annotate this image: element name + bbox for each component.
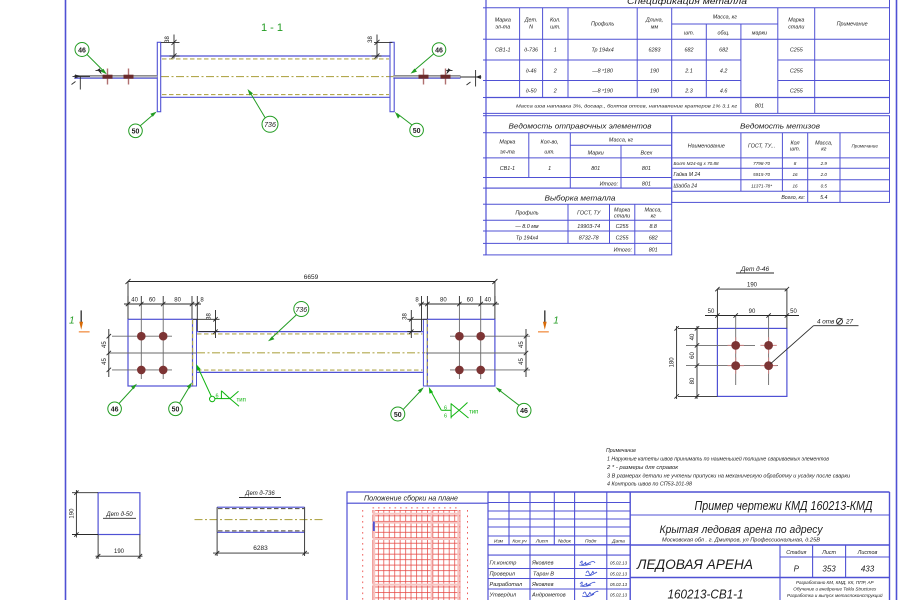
svg-text:2.9: 2.9 xyxy=(820,161,828,166)
left frame line xyxy=(65,0,67,600)
svg-text:801: 801 xyxy=(591,166,600,172)
svg-text:Пример чертежи КМД 160213-КМД: Пример чертежи КМД 160213-КМД xyxy=(695,499,873,513)
NOTES xyxy=(606,448,850,488)
svg-text:90: 90 xyxy=(749,309,756,315)
revision header texts xyxy=(494,539,625,545)
svg-text:Примечание: Примечание xyxy=(837,22,868,28)
dim row left 40 60 80 8 xyxy=(124,296,201,331)
left arm tiny dim xyxy=(72,74,91,89)
balloon 736 xyxy=(248,89,279,132)
svg-text:Выборка металла: Выборка металла xyxy=(545,194,616,203)
right zone lines xyxy=(630,514,889,516)
svg-text:16: 16 xyxy=(792,184,798,189)
svg-text:Примечание: Примечание xyxy=(606,448,636,454)
right plate edge strip xyxy=(423,319,427,386)
svg-text:50: 50 xyxy=(708,309,715,315)
svg-text:Тр 194х4: Тр 194х4 xyxy=(516,236,538,242)
svg-text:736: 736 xyxy=(295,307,307,314)
left plate edge strip xyxy=(193,319,197,386)
svg-text:4.2: 4.2 xyxy=(720,69,728,75)
svg-text:50: 50 xyxy=(413,128,421,135)
blue signatures xyxy=(579,561,598,597)
left arm small arrow mark xyxy=(96,68,102,74)
dim 50 90 50 xyxy=(705,313,799,317)
DETAIL D-736 xyxy=(195,491,324,556)
svg-text:433: 433 xyxy=(861,565,875,574)
svg-text:Яковлев: Яковлев xyxy=(531,582,554,588)
svg-text:Наименование: Наименование xyxy=(688,144,725,150)
section mark 1 right xyxy=(538,310,559,331)
DETAIL D-50 xyxy=(69,490,142,559)
spec header texts xyxy=(495,15,868,37)
svg-text:Кол.уч: Кол.уч xyxy=(512,539,527,545)
svg-text:38: 38 xyxy=(165,36,171,43)
svg-text:190: 190 xyxy=(114,549,125,555)
dim 45 45 right xyxy=(524,329,528,377)
svg-text:кг: кг xyxy=(821,147,827,153)
svg-text:1: 1 xyxy=(553,316,559,327)
svg-text:Масса шов наплавка 3%, досвар.: Масса шов наплавка 3%, досвар., болтов о… xyxy=(516,104,738,110)
svg-text:4.6: 4.6 xyxy=(720,89,728,95)
right bolt axes xyxy=(426,304,530,379)
svg-text:05.02.13: 05.02.13 xyxy=(610,582,628,587)
svg-text:Стадия: Стадия xyxy=(786,550,806,556)
dim 45 45 left xyxy=(107,329,111,377)
svg-text:Утвердил: Утвердил xyxy=(489,593,517,599)
svg-text:180: 180 xyxy=(670,357,676,368)
svg-text:46: 46 xyxy=(435,47,443,54)
svg-text:мм: мм xyxy=(651,25,659,31)
svg-text:С255: С255 xyxy=(616,236,630,242)
svg-text:1: 1 xyxy=(554,48,557,54)
d-46 hole axes xyxy=(686,316,778,386)
dims 40 60 80 left xyxy=(678,326,717,399)
right frame line xyxy=(896,0,898,600)
svg-text:шт.: шт. xyxy=(544,150,554,156)
svg-text:6: 6 xyxy=(444,413,447,419)
section mark 1 left xyxy=(69,310,90,331)
svg-text:Всех: Всех xyxy=(641,151,653,157)
svg-text:Дата: Дата xyxy=(611,539,625,545)
svg-text:0.5: 0.5 xyxy=(821,184,828,189)
svg-text:60: 60 xyxy=(690,352,696,359)
right arm plate xyxy=(393,76,460,79)
svg-text:тип: тип xyxy=(469,409,478,415)
svg-text:Гайка М 24: Гайка М 24 xyxy=(674,171,701,178)
svg-text:6283: 6283 xyxy=(253,545,268,552)
right arm tiny dim xyxy=(460,70,481,87)
svg-text:Итого:: Итого: xyxy=(600,182,619,188)
stage cells xyxy=(786,550,877,556)
svg-text:Дет д-50: Дет д-50 xyxy=(105,512,133,518)
balloon 46 left xyxy=(75,43,107,75)
svg-text:Подп: Подп xyxy=(585,539,597,545)
left end plate face xyxy=(128,319,193,386)
svg-text:Марка: Марка xyxy=(495,18,511,24)
left weld symbol xyxy=(196,364,239,406)
svg-text:Дет д-46: Дет д-46 xyxy=(740,265,770,273)
svg-text:Изм: Изм xyxy=(494,539,504,545)
svg-text:45: 45 xyxy=(519,341,525,348)
svg-text:ГОСТ, ТУ...: ГОСТ, ТУ... xyxy=(748,144,775,150)
svg-text:стали: стали xyxy=(614,214,630,220)
svg-text:Таран В: Таран В xyxy=(533,572,554,578)
svg-text:2 * - размеры для справок: 2 * - размеры для справок xyxy=(606,465,679,471)
svg-text:Листов: Листов xyxy=(857,550,878,556)
svg-text:05.02.13: 05.02.13 xyxy=(610,593,628,598)
balloon 46 right xyxy=(411,43,446,74)
svg-text:Ведомость метизов: Ведомость метизов xyxy=(740,122,820,131)
svg-text:60: 60 xyxy=(467,298,474,304)
svg-text:Лист: Лист xyxy=(821,550,836,556)
dim 38 left xyxy=(161,35,180,59)
plan frame xyxy=(347,492,488,600)
balloon 46 right plan xyxy=(496,387,532,417)
right arm bolts xyxy=(419,69,451,85)
svg-text:50: 50 xyxy=(132,129,140,136)
d-50 bottom dim 190 xyxy=(96,535,143,560)
svg-text:стали: стали xyxy=(788,25,804,31)
balloon 50 right xyxy=(395,112,424,137)
dim 38 right plan xyxy=(407,310,427,338)
svg-text:— 8.0 мм: — 8.0 мм xyxy=(514,224,539,230)
svg-text:2: 2 xyxy=(553,69,557,75)
right plate hidden edge dashed xyxy=(426,320,428,386)
svg-text:Разработал: Разработал xyxy=(490,582,523,588)
signature rows xyxy=(489,561,566,599)
svg-text:Болт М24-6g х 70.88: Болт М24-6g х 70.88 xyxy=(674,161,720,166)
svg-text:4 отв: 4 отв xyxy=(817,319,835,326)
svg-text:50: 50 xyxy=(790,309,797,315)
TITLE BLOCK xyxy=(488,492,890,600)
balloon 50 left plan xyxy=(169,382,192,415)
METAL SELECTION TABLE xyxy=(486,188,672,255)
svg-text:353: 353 xyxy=(822,565,836,574)
svg-text:801: 801 xyxy=(755,104,764,110)
svg-text:Андрометов: Андрометов xyxy=(531,593,566,599)
tube outline xyxy=(197,332,423,373)
svg-text:ГОСТ, ТУ: ГОСТ, ТУ xyxy=(577,211,601,217)
svg-text:общ.: общ. xyxy=(718,31,730,37)
svg-text:Проверил: Проверил xyxy=(490,572,516,578)
svg-text:Масса, кг: Масса, кг xyxy=(713,15,737,21)
svg-text:Московская обл . г. Дмитров, у: Московская обл . г. Дмитров, ул Професси… xyxy=(662,538,821,544)
spec table grid xyxy=(486,0,890,113)
svg-text:682: 682 xyxy=(719,48,728,54)
balloon 736 plan xyxy=(268,302,309,342)
svg-text:736: 736 xyxy=(264,122,276,129)
SPEC TABLE xyxy=(486,0,890,113)
svg-text:40: 40 xyxy=(131,298,138,304)
table row tick overshoots xyxy=(483,8,486,255)
left arm plate xyxy=(74,76,157,79)
svg-text:05.02.13: 05.02.13 xyxy=(610,572,628,577)
svg-text:Лист: Лист xyxy=(535,539,548,545)
right weld symbol xyxy=(429,387,469,419)
svg-text:—8 ˣ190: —8 ˣ190 xyxy=(591,89,613,95)
svg-text:Марка: Марка xyxy=(499,140,515,146)
svg-text:—8 ˣ180: —8 ˣ180 xyxy=(591,69,613,75)
balloon 46 left plan xyxy=(108,384,137,416)
dim 38 left plan xyxy=(193,310,220,338)
svg-text:5.4: 5.4 xyxy=(820,195,827,201)
d-46 hole cross ticks xyxy=(728,337,777,374)
svg-text:Длина,: Длина, xyxy=(645,18,663,24)
svg-text:682: 682 xyxy=(649,236,658,242)
svg-text:1: 1 xyxy=(69,316,75,327)
svg-text:шт.: шт. xyxy=(684,31,694,37)
svg-text:2.1: 2.1 xyxy=(684,69,693,75)
dim row right 8 80 60 40 xyxy=(419,296,499,331)
spec rows xyxy=(495,48,804,110)
svg-text:38: 38 xyxy=(368,36,374,43)
left bolt axes xyxy=(109,304,196,379)
right end plate xyxy=(390,42,394,111)
svg-text:д-46: д-46 xyxy=(526,69,537,75)
svg-text:Ведомость отправочных элементо: Ведомость отправочных элементов xyxy=(509,122,652,131)
svg-text:Примечание: Примечание xyxy=(851,144,878,149)
svg-text:Итого:: Итого: xyxy=(614,248,633,254)
tube hidden inner dashed xyxy=(162,59,389,95)
DETAIL D-46 xyxy=(670,265,859,399)
svg-text:Всего, кг:: Всего, кг: xyxy=(781,195,805,201)
svg-text:Тр 194х4: Тр 194х4 xyxy=(591,48,613,54)
svg-text:д-736: д-736 xyxy=(524,48,538,54)
svg-text:38: 38 xyxy=(402,313,408,320)
svg-text:Обучение и внедрение Tekla St: Обучение и внедрение Tekla Structures xyxy=(793,587,877,592)
d-736 tube body xyxy=(217,507,305,532)
svg-text:5915-70: 5915-70 xyxy=(753,172,770,177)
tube hidden dashed xyxy=(197,334,422,370)
tube centerline xyxy=(197,352,426,354)
stamp grid xyxy=(488,492,890,600)
svg-text:Гл.констр: Гл.констр xyxy=(490,561,517,567)
right end plate face xyxy=(427,319,495,386)
d-736 centerline xyxy=(195,519,324,521)
svg-text:Кол-во,: Кол-во, xyxy=(541,140,559,146)
svg-text:2.0: 2.0 xyxy=(820,172,828,177)
svg-text:801: 801 xyxy=(642,166,651,172)
company small text xyxy=(787,580,883,598)
svg-text:46: 46 xyxy=(111,407,119,414)
svg-text:Крытая ледовая арена по адресу: Крытая ледовая арена по адресу xyxy=(660,524,824,536)
red grid accent bands xyxy=(373,510,461,600)
svg-text:СВ1-1: СВ1-1 xyxy=(495,48,510,54)
HARDWARE TABLE xyxy=(672,116,890,203)
SHIPPING ELEMENTS TABLE xyxy=(486,116,672,188)
svg-text:С255: С255 xyxy=(790,69,804,75)
left end plate xyxy=(157,42,160,111)
d-736 dim 6283 xyxy=(213,532,309,556)
svg-text:05.02.13: 05.02.13 xyxy=(610,561,628,566)
svg-text:50: 50 xyxy=(172,407,180,414)
d-50 plate xyxy=(98,493,140,535)
svg-text:801: 801 xyxy=(642,182,651,188)
svg-text:160213-СВ1-1: 160213-СВ1-1 xyxy=(668,588,744,600)
svg-text:16: 16 xyxy=(792,172,798,177)
svg-text:Шайба 24: Шайба 24 xyxy=(674,183,698,190)
right arm small arrow mark xyxy=(446,68,452,74)
svg-text:6: 6 xyxy=(216,393,219,399)
SECTION 1-1 xyxy=(72,22,482,138)
svg-text:эл-та: эл-та xyxy=(495,25,510,31)
svg-text:60: 60 xyxy=(149,298,156,304)
svg-text:N: N xyxy=(529,25,533,31)
svg-text:Дет.: Дет. xyxy=(524,18,538,24)
ASSEMBLY POSITION PLAN xyxy=(347,492,488,600)
svg-text:2.3: 2.3 xyxy=(684,89,693,95)
left plate hidden edge dashed xyxy=(192,320,194,386)
dim 6659 xyxy=(126,279,498,319)
svg-text:45: 45 xyxy=(102,341,108,348)
table zone divider xyxy=(485,0,487,255)
svg-text:Профиль: Профиль xyxy=(515,211,538,217)
dim 180 xyxy=(674,326,678,399)
tube outline xyxy=(161,56,390,97)
svg-text:шт.: шт. xyxy=(790,147,800,153)
svg-text:№док: №док xyxy=(558,539,572,545)
svg-text:Спецификация металла: Спецификация металла xyxy=(627,0,748,6)
svg-text:1: 1 xyxy=(548,166,551,172)
svg-text:19903-74: 19903-74 xyxy=(577,224,600,230)
svg-text:2: 2 xyxy=(553,89,557,95)
svg-text:6283: 6283 xyxy=(649,48,661,54)
svg-text:СВ1-1: СВ1-1 xyxy=(500,166,515,172)
svg-text:Положение сборки на плане: Положение сборки на плане xyxy=(364,495,458,503)
svg-text:46: 46 xyxy=(78,47,86,54)
revision rows xyxy=(488,502,630,504)
svg-text:Марки: Марки xyxy=(588,151,604,157)
svg-text:эл-та: эл-та xyxy=(500,150,515,156)
highlighted assembly position xyxy=(373,522,375,532)
svg-text:80: 80 xyxy=(174,298,181,304)
svg-text:Яковлев: Яковлев xyxy=(531,561,554,567)
svg-text:38: 38 xyxy=(207,313,213,320)
svg-text:Дет д-736: Дет д-736 xyxy=(244,491,275,497)
svg-text:Масса, кг: Масса, кг xyxy=(609,138,633,144)
svg-text:Р: Р xyxy=(794,565,800,574)
svg-text:4 Контроль швов по СП53-101-98: 4 Контроль швов по СП53-101-98 xyxy=(607,482,692,488)
svg-text:марки: марки xyxy=(752,31,767,37)
svg-text:С255: С255 xyxy=(790,89,804,95)
left bolts xyxy=(137,332,168,374)
svg-text:45: 45 xyxy=(102,358,108,365)
svg-text:7798-70: 7798-70 xyxy=(753,161,770,166)
svg-text:тип: тип xyxy=(237,397,246,403)
svg-text:40: 40 xyxy=(690,333,696,340)
svg-text:190: 190 xyxy=(69,508,75,519)
svg-text:801: 801 xyxy=(649,248,658,254)
d-46 plate xyxy=(717,328,787,396)
revision columns xyxy=(508,492,510,545)
d-46 holes xyxy=(731,341,773,370)
svg-text:6659: 6659 xyxy=(304,274,319,281)
svg-text:8.8: 8.8 xyxy=(649,224,657,230)
left arm bolts xyxy=(103,69,134,85)
svg-text:190: 190 xyxy=(747,283,758,289)
svg-text:Профиль: Профиль xyxy=(591,22,614,28)
svg-text:1 - 1: 1 - 1 xyxy=(261,22,283,34)
svg-text:3 В размерах детали не учтены: 3 В размерах детали не учтены припуски н… xyxy=(607,473,850,479)
svg-text:80: 80 xyxy=(440,298,447,304)
svg-text:8732-78: 8732-78 xyxy=(579,236,599,242)
svg-text:кг: кг xyxy=(651,214,657,220)
svg-text:682: 682 xyxy=(685,48,694,54)
svg-text:шт.: шт. xyxy=(550,25,560,31)
dim 38 right xyxy=(372,35,393,59)
leader 4 holes d27 xyxy=(771,326,859,364)
svg-text:50: 50 xyxy=(394,412,402,419)
svg-text:Разработка и выпуск металлокон: Разработка и выпуск металлоконструкций xyxy=(787,592,883,598)
svg-text:д-50: д-50 xyxy=(526,89,537,95)
svg-text:1 Наружные катеты швов принима: 1 Наружные катеты швов принимать по наим… xyxy=(607,455,829,462)
svg-text:С255: С255 xyxy=(790,48,804,54)
svg-text:190: 190 xyxy=(650,69,659,75)
svg-text:Кол.: Кол. xyxy=(550,18,561,24)
red grid xyxy=(373,510,461,600)
red grid margin dots xyxy=(363,508,468,600)
svg-text:ЛЕДОВАЯ АРЕНА: ЛЕДОВАЯ АРЕНА xyxy=(636,557,753,572)
svg-text:11371-78*: 11371-78* xyxy=(751,184,772,189)
MAIN PLAN DRAWING xyxy=(69,274,559,421)
svg-text:80: 80 xyxy=(690,377,696,384)
tube centerline xyxy=(161,76,394,78)
svg-text:27: 27 xyxy=(845,319,854,326)
balloon 50 right plan xyxy=(391,387,424,421)
balloon 50 left xyxy=(129,112,157,138)
svg-text:С255: С255 xyxy=(616,224,630,230)
svg-text:6: 6 xyxy=(444,405,447,411)
svg-text:8: 8 xyxy=(794,161,797,166)
svg-text:45: 45 xyxy=(519,358,525,365)
svg-text:190: 190 xyxy=(650,89,659,95)
svg-text:Разработано КМ, КМД, КК, ППР,: Разработано КМ, КМД, КК, ППР, АР xyxy=(796,580,875,585)
dim 190 top xyxy=(715,287,789,329)
svg-text:40: 40 xyxy=(484,298,491,304)
d-50 left dim 190 xyxy=(72,490,98,538)
svg-text:Марка: Марка xyxy=(788,18,804,24)
right bolts xyxy=(455,332,485,374)
svg-text:46: 46 xyxy=(520,408,528,415)
